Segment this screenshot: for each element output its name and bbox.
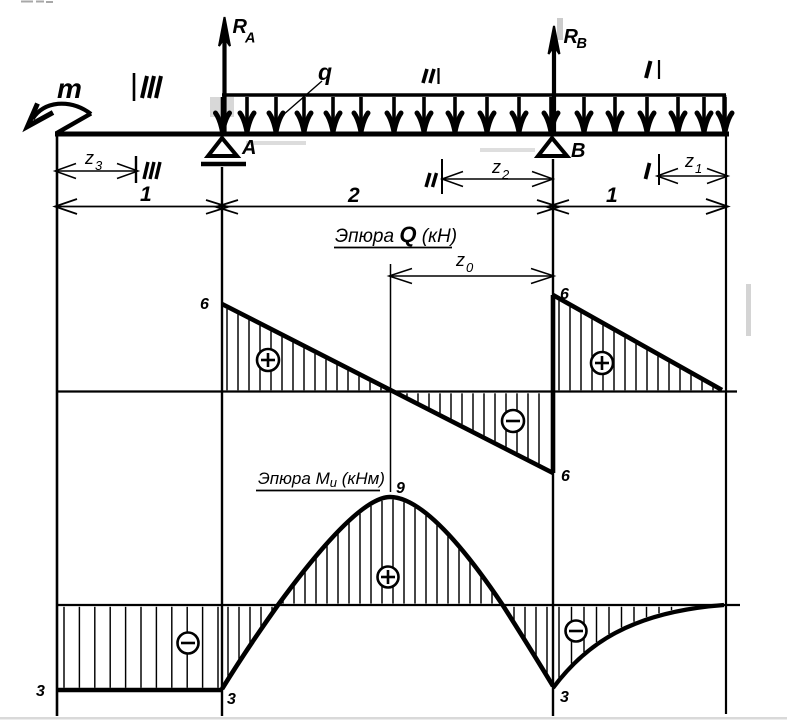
svg-text:0: 0 bbox=[466, 260, 474, 275]
svg-text:6: 6 bbox=[200, 296, 209, 313]
load arrow 4 bbox=[297, 97, 311, 132]
scan artifact gray smudge left of RA bbox=[210, 97, 234, 117]
plus sign Q left bbox=[257, 349, 279, 371]
svg-text:Эпюра Q (кН): Эпюра Q (кН) bbox=[335, 222, 457, 247]
title Epyura Q bbox=[334, 222, 457, 248]
svg-text:B: B bbox=[571, 140, 585, 162]
svg-text:3: 3 bbox=[227, 691, 236, 708]
dimension z2 line bbox=[442, 172, 553, 187]
scan artifact under beam near A bbox=[246, 141, 306, 145]
M hatch right bbox=[559, 607, 672, 678]
dimension z0 line bbox=[389, 269, 554, 284]
projection line z0 / M peak x=390.5 bbox=[390, 264, 392, 492]
load arrow 11 bbox=[512, 97, 526, 132]
svg-text:3: 3 bbox=[560, 689, 569, 706]
leader line q bbox=[283, 81, 322, 115]
plus sign M middle bbox=[378, 567, 399, 588]
moment m arrowhead bbox=[28, 104, 54, 127]
svg-text:Эпюра Ми (кНм): Эпюра Ми (кНм) bbox=[258, 469, 385, 490]
Q jump at B bbox=[551, 295, 556, 473]
dimension z3 line bbox=[55, 164, 138, 179]
minus sign M right bbox=[566, 621, 587, 642]
scan artifact gray line bottom bbox=[0, 717, 787, 720]
svg-text:z: z bbox=[684, 151, 694, 171]
svg-text:A: A bbox=[241, 137, 256, 159]
scan artifact gray streak right bbox=[746, 284, 751, 336]
scan artifact dashes top-left bbox=[21, 1, 53, 4]
load arrow 16 bbox=[671, 97, 685, 132]
reaction arrow RA bbox=[219, 17, 230, 133]
M hatch middle bbox=[228, 500, 547, 678]
section mark II lower tick bbox=[426, 159, 442, 194]
svg-text:1: 1 bbox=[606, 184, 618, 207]
svg-text:2: 2 bbox=[347, 184, 360, 207]
dimension z1 line bbox=[657, 169, 728, 184]
Q hatch bbox=[227, 301, 713, 464]
load arrow 15 bbox=[640, 97, 654, 132]
load arrow 9 bbox=[448, 97, 462, 132]
load arrow 2 bbox=[240, 97, 254, 132]
Q line B to end bbox=[553, 295, 722, 390]
load arrow 14 bbox=[608, 97, 622, 132]
moment m zigzag tail bbox=[56, 114, 91, 134]
load arrow 8 bbox=[417, 97, 431, 132]
load arrow 12 bbox=[544, 97, 558, 132]
M axis bbox=[57, 604, 740, 606]
projection line support A x=222 bbox=[221, 167, 223, 716]
load arrow 6 bbox=[354, 97, 368, 132]
svg-text:3: 3 bbox=[36, 683, 45, 700]
support A ground line bbox=[201, 162, 246, 167]
load arrow 17 bbox=[697, 97, 711, 132]
distributed load right edge bbox=[722, 95, 726, 133]
svg-text:6: 6 bbox=[560, 286, 569, 303]
Q line A to B bbox=[222, 304, 553, 473]
title Epyura M bbox=[256, 469, 385, 491]
section mark I upper bbox=[646, 60, 659, 79]
section mark I lower tick bbox=[646, 154, 660, 185]
reaction arrow RB bbox=[549, 26, 560, 133]
svg-text:m: m bbox=[57, 73, 82, 104]
load arrow 18 bbox=[718, 97, 732, 132]
minus sign M left bbox=[178, 633, 199, 654]
M line left (value 3) bbox=[57, 688, 223, 692]
minus sign Q mid bbox=[502, 410, 524, 432]
projection line left end x=57 bbox=[56, 131, 59, 716]
section mark III upper bbox=[134, 73, 161, 101]
scan artifact under beam near B bbox=[480, 148, 535, 152]
load arrow 1 bbox=[216, 97, 230, 132]
moment m arc bbox=[33, 104, 92, 119]
svg-text:A: A bbox=[244, 31, 255, 47]
svg-text:z: z bbox=[455, 250, 465, 270]
main dimension line bbox=[55, 199, 728, 214]
section mark III lower tick bbox=[136, 156, 160, 183]
projection line right end x=726 bbox=[725, 134, 727, 714]
scan artifact gray band near RB bbox=[557, 18, 563, 40]
svg-text:z: z bbox=[491, 157, 501, 177]
svg-text:9: 9 bbox=[396, 480, 405, 497]
projection line support B x=553 bbox=[552, 159, 554, 716]
svg-text:3: 3 bbox=[95, 158, 103, 173]
plus sign Q right bbox=[591, 352, 613, 374]
svg-text:1: 1 bbox=[140, 183, 152, 206]
svg-text:1: 1 bbox=[695, 161, 702, 176]
support A triangle bbox=[208, 138, 237, 156]
svg-text:q: q bbox=[318, 59, 332, 85]
svg-text:6: 6 bbox=[561, 468, 570, 485]
M hatch left bbox=[64, 607, 218, 688]
load arrow 13 bbox=[577, 97, 591, 132]
distributed load top line bbox=[222, 93, 726, 97]
svg-text:z: z bbox=[84, 148, 94, 168]
load arrow 10 bbox=[480, 97, 494, 132]
M curve middle (parabola peak 9) bbox=[222, 497, 553, 689]
svg-text:B: B bbox=[577, 36, 587, 52]
load arrow 5 bbox=[326, 97, 340, 132]
Q axis bbox=[57, 390, 737, 392]
support B triangle bbox=[538, 138, 567, 156]
section mark II upper bbox=[423, 68, 439, 84]
svg-text:2: 2 bbox=[501, 167, 510, 182]
beam bbox=[55, 132, 729, 137]
M curve right (decay to zero) bbox=[553, 605, 724, 688]
load arrow 3 bbox=[269, 97, 283, 132]
load arrow 7 bbox=[387, 97, 401, 132]
